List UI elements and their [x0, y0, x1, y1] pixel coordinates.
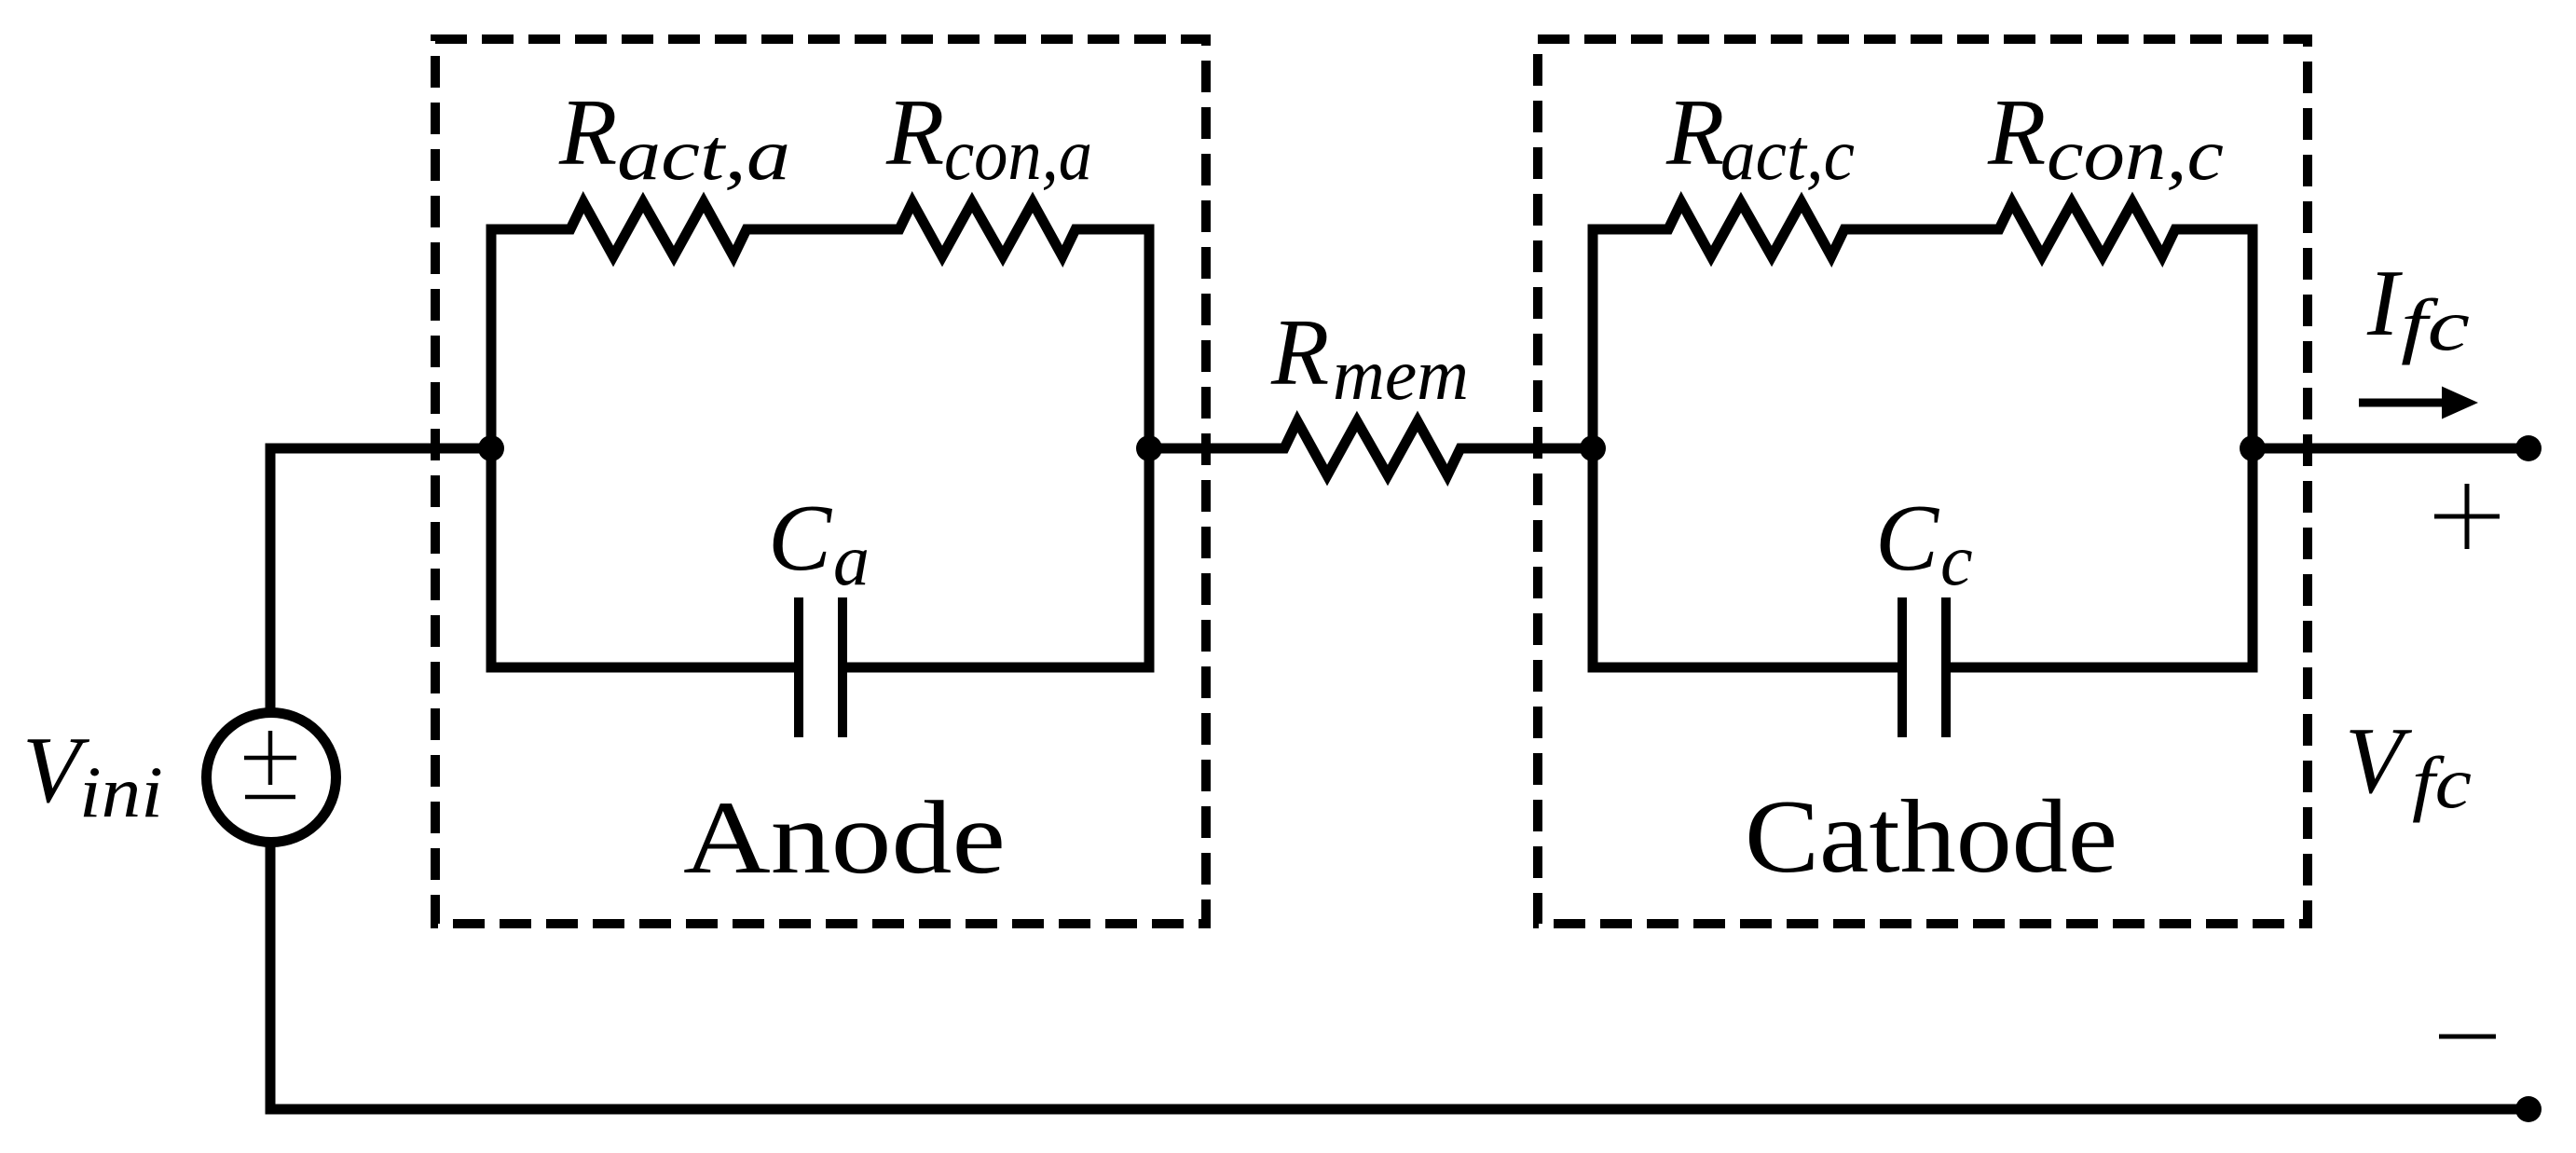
svg-text:c: c — [1940, 519, 1973, 600]
positive output terminal — [2515, 435, 2542, 461]
cathode dashed box — [1538, 39, 2308, 924]
wire: anode top middle segment — [745, 225, 901, 235]
label C_a — [768, 486, 870, 600]
wire: cathode top-right segment — [2173, 225, 2258, 235]
svg-text:act,a: act,a — [617, 114, 790, 195]
svg-text:con,c: con,c — [2047, 114, 2224, 195]
wire from source bottom down to bottom rail — [266, 841, 276, 1115]
svg-text:ini: ini — [79, 751, 163, 832]
plus sign of V_fc — [2434, 484, 2500, 549]
resistor R_mem — [1277, 421, 1468, 475]
wire: anode loop left vertical — [486, 225, 497, 673]
label V_fc — [2345, 708, 2472, 823]
resistor R_act,a — [563, 202, 754, 256]
svg-text:R: R — [1270, 300, 1329, 405]
wire from source top up to main line — [266, 454, 276, 716]
wire: anode loop right vertical — [1144, 225, 1155, 673]
label C_c — [1875, 486, 1973, 600]
svg-text:con,a: con,a — [944, 114, 1092, 195]
svg-text:R: R — [558, 80, 617, 185]
wire: bottom return rail — [266, 1105, 2529, 1115]
wire: anode top-left segment — [486, 225, 573, 235]
junction node A (anode left) — [478, 435, 504, 461]
svg-text:R: R — [885, 80, 944, 185]
wire: cathode top-left segment — [1588, 225, 1671, 235]
svg-text:C: C — [1875, 486, 1939, 591]
label R_con,a — [885, 80, 1092, 195]
capacitor C_c — [1902, 597, 1946, 737]
svg-text:fc: fc — [2401, 284, 2470, 365]
svg-text:Anode: Anode — [683, 780, 1006, 896]
wire: cathode top middle segment — [1843, 225, 2001, 235]
svg-text:mem: mem — [1333, 334, 1469, 415]
resistor R_con,c — [1992, 202, 2183, 256]
svg-text:I: I — [2366, 251, 2403, 356]
label I_fc — [2366, 251, 2470, 365]
wire: cathode loop right vertical — [2248, 225, 2258, 673]
label R_con,c — [1987, 80, 2224, 195]
svg-text:Cathode: Cathode — [1745, 779, 2117, 895]
current arrow I_fc — [2359, 387, 2478, 419]
svg-text:C: C — [768, 486, 832, 591]
wire: anode top-right segment — [1074, 225, 1155, 235]
minus sign of V_fc — [2439, 1035, 2496, 1039]
wire: anode bottom-right segment — [844, 663, 1155, 673]
resistor R_act,c — [1661, 202, 1852, 256]
junction node B (anode right) — [1136, 435, 1162, 461]
label R_act,a — [558, 80, 790, 195]
label V_ini — [22, 718, 163, 832]
junction node D (cathode right) — [2240, 435, 2266, 461]
svg-text:act,c: act,c — [1720, 114, 1855, 195]
voltage source V_ini — [207, 713, 336, 843]
svg-text:fc: fc — [2412, 742, 2472, 823]
svg-text:R: R — [1987, 80, 2046, 185]
wire: R_mem to node C — [1459, 444, 1593, 454]
wire: node D to positive terminal — [2253, 444, 2528, 454]
negative output terminal — [2515, 1096, 2542, 1122]
wire: cathode bottom-left segment — [1588, 663, 1901, 673]
wire from main-line corner to node A — [266, 444, 492, 454]
svg-text:V: V — [2345, 708, 2413, 814]
wire: cathode bottom-right segment — [1948, 663, 2258, 673]
svg-text:a: a — [833, 519, 870, 600]
anode dashed box — [435, 39, 1206, 924]
wire: node B to R_mem — [1149, 444, 1286, 454]
junction node C (cathode left) — [1580, 435, 1606, 461]
wire: cathode loop left vertical — [1588, 225, 1598, 673]
label R_mem — [1270, 300, 1469, 415]
resistor R_con,a — [892, 202, 1083, 256]
label R_act,c — [1665, 80, 1855, 195]
capacitor C_a — [799, 597, 843, 737]
svg-text:R: R — [1665, 80, 1724, 185]
wire: anode bottom-left segment — [486, 663, 798, 673]
